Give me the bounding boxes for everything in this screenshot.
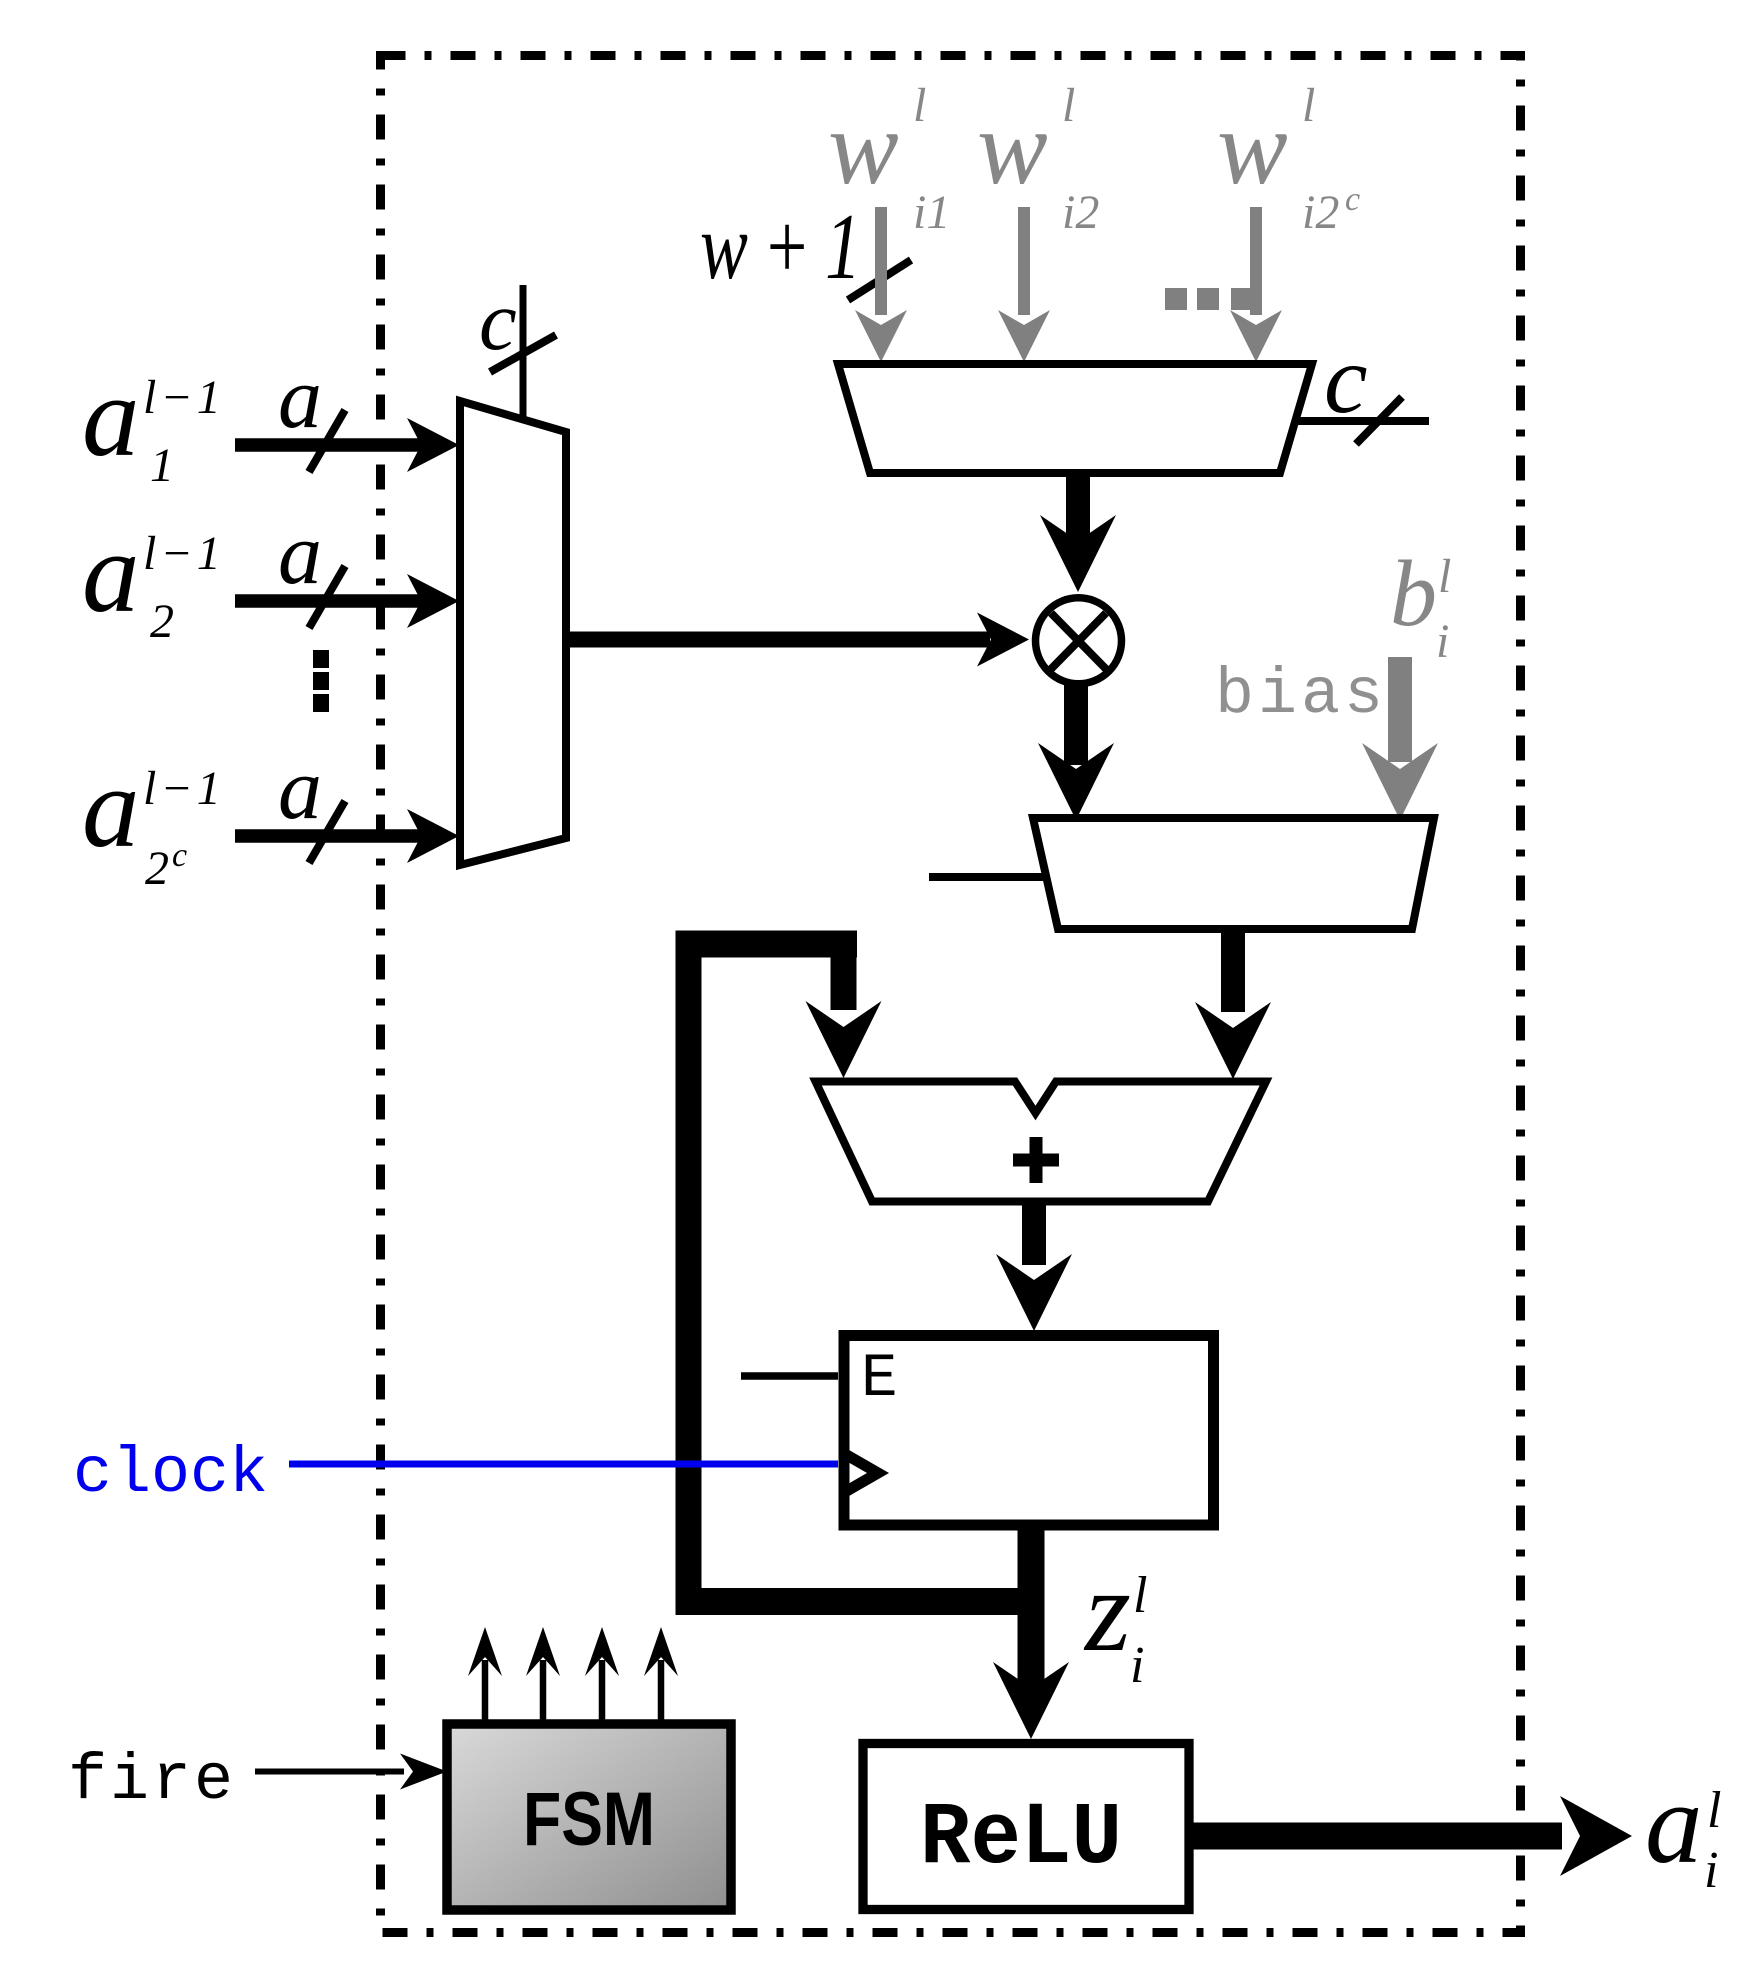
arrowhead into adder right <box>1195 1002 1271 1079</box>
svg-text:z: z <box>1083 1545 1131 1676</box>
svg-text:i: i <box>1130 1637 1144 1694</box>
bus slash a2c <box>309 801 345 863</box>
wire a2 input <box>235 594 432 608</box>
label w_i2c^l <box>1217 79 1360 239</box>
boundary dash-dot frame of neuron block <box>381 56 1521 1933</box>
adder output wire <box>1022 1201 1046 1265</box>
arrowhead into multiplier left <box>977 613 1029 667</box>
arrowhead feedback into adder left <box>806 1001 882 1078</box>
weight arrow w_i2 <box>998 207 1050 362</box>
label w_i2^l <box>977 79 1099 239</box>
svg-text:w: w <box>977 89 1048 206</box>
label a_2^{l-1} <box>82 509 225 648</box>
svg-text:l−1: l−1 <box>143 762 225 815</box>
svg-text:2: 2 <box>145 842 169 895</box>
label w_i1^l <box>828 79 950 239</box>
fire wire <box>255 1769 404 1775</box>
FSM output arrow 2 <box>526 1627 560 1722</box>
FSM output arrow 3 <box>585 1627 619 1722</box>
bias mux output wire <box>1221 929 1245 1012</box>
svg-text:ReLU: ReLU <box>920 1790 1122 1889</box>
adder U5 <box>816 1082 1267 1202</box>
bias mux select stub <box>929 873 1046 881</box>
FSM output arrow 4 <box>644 1627 678 1722</box>
svg-text:FSM: FSM <box>523 1777 655 1862</box>
svg-text:i2: i2 <box>1062 186 1099 239</box>
svg-text:i: i <box>1704 1842 1718 1899</box>
clock wire (blue) <box>289 1461 838 1468</box>
plus sign in adder <box>1013 1137 1059 1183</box>
weight arrow w_i2c <box>1230 207 1282 362</box>
wire a2c input <box>235 829 432 843</box>
svg-text:a: a <box>82 744 140 871</box>
svg-text:E: E <box>861 1345 898 1414</box>
ReLU box U7 <box>863 1744 1189 1910</box>
svg-text:a: a <box>82 353 140 480</box>
label a_1^{l-1} <box>82 353 225 492</box>
svg-text:l−1: l−1 <box>143 527 225 580</box>
FSM box U8 <box>447 1724 731 1910</box>
svg-text:a: a <box>278 741 322 838</box>
svg-text:l: l <box>913 79 926 132</box>
label a_i^l <box>1645 1760 1721 1899</box>
svg-text:c: c <box>1345 181 1360 218</box>
bias mux U4 <box>1033 818 1434 929</box>
weight arrow w_i1 <box>855 207 907 362</box>
svg-text:clock: clock <box>73 1437 268 1511</box>
arrowhead a2c into mux <box>407 809 459 863</box>
weight mux select output wire c <box>1296 417 1429 425</box>
wire mux output to multiplier <box>566 632 990 648</box>
arrowhead a2 into mux <box>407 574 459 628</box>
register U6 <box>844 1336 1214 1526</box>
multiplier output wire <box>1064 685 1088 765</box>
svg-text:1: 1 <box>150 439 174 492</box>
bus slash a2 <box>309 566 345 628</box>
weight mux U2 <box>838 364 1312 473</box>
label z_i^l <box>1083 1545 1147 1694</box>
svg-text:bias: bias <box>1215 658 1387 732</box>
svg-text:2: 2 <box>150 595 174 648</box>
svg-text:i: i <box>1436 615 1449 668</box>
register output wire z <box>1018 1525 1045 1692</box>
arrowhead output a_i <box>1560 1796 1632 1876</box>
svg-text:a: a <box>278 506 322 603</box>
svg-text:a: a <box>82 509 140 636</box>
arrowhead into ReLU <box>993 1662 1069 1739</box>
bias arrow gray <box>1362 657 1438 820</box>
ellipsis dots between weight arrows <box>1165 288 1253 310</box>
register enable stub <box>741 1372 838 1380</box>
svg-text:w + 1: w + 1 <box>700 195 861 299</box>
bus slash c out <box>1356 397 1402 444</box>
svg-text:a: a <box>278 350 322 447</box>
svg-text:l: l <box>1133 1567 1147 1624</box>
wire a1 input <box>235 438 432 452</box>
arrowhead into multiplier <box>1040 515 1116 592</box>
svg-text:l: l <box>1062 79 1075 132</box>
label b_i^l <box>1390 542 1451 668</box>
ellipsis dots between a2 and a2c inputs <box>313 650 329 712</box>
arrowhead into register <box>996 1254 1072 1331</box>
ReLU output wire <box>1189 1823 1562 1850</box>
mux select wire <box>520 285 527 419</box>
weight mux output wire down <box>1066 473 1090 545</box>
arrowhead fire into FSM <box>400 1754 447 1790</box>
register clock wedge <box>845 1454 878 1492</box>
arrowhead into bias mux <box>1038 743 1114 820</box>
multiplier U3 (circle-X) <box>1036 598 1122 684</box>
svg-text:c: c <box>479 274 517 368</box>
svg-text:i2: i2 <box>1302 186 1339 239</box>
svg-text:fire: fire <box>68 1744 236 1818</box>
arrowhead a1 into mux <box>407 418 459 472</box>
label a_{2^c}^{l-1} <box>82 744 225 895</box>
svg-text:a: a <box>1645 1760 1703 1887</box>
svg-text:b: b <box>1390 542 1437 646</box>
svg-text:i1: i1 <box>913 186 950 239</box>
svg-text:c: c <box>172 837 187 874</box>
bus slash a1 <box>309 410 345 472</box>
svg-text:l−1: l−1 <box>143 371 225 424</box>
svg-text:w: w <box>828 89 899 206</box>
svg-text:l: l <box>1302 79 1315 132</box>
bus slash w+1 on weight arrow 1 <box>848 260 911 300</box>
svg-text:l: l <box>1438 550 1451 603</box>
FSM output arrow 1 <box>468 1627 502 1722</box>
svg-text:l: l <box>1707 1782 1721 1839</box>
svg-text:c: c <box>1324 326 1368 434</box>
feedback wire from z to adder <box>676 931 1045 1616</box>
bus slash select c <box>490 335 556 372</box>
svg-text:w: w <box>1217 89 1288 206</box>
input mux U1 <box>460 401 566 865</box>
